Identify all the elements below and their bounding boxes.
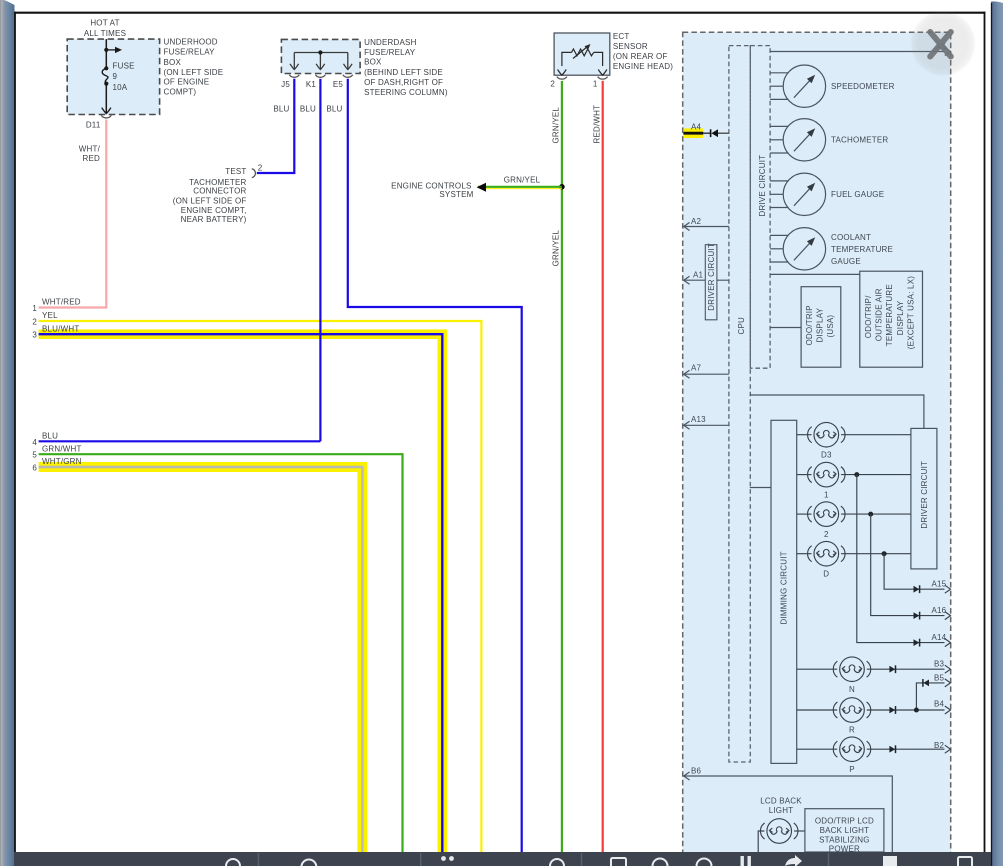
drive circuit dashed box <box>750 46 770 369</box>
svg-text:GRN/YEL: GRN/YEL <box>504 176 541 185</box>
svg-text:SYSTEM: SYSTEM <box>439 190 473 199</box>
wire bulb 2 to A16 <box>871 514 945 616</box>
connector B3 <box>945 665 951 673</box>
svg-text:(ON LEFT SIDE OF: (ON LEFT SIDE OF <box>173 196 247 205</box>
svg-text:GRN/YEL: GRN/YEL <box>552 107 561 144</box>
svg-text:A16: A16 <box>932 606 947 615</box>
svg-text:P: P <box>849 765 855 774</box>
wire bulb 1 to A14 <box>857 475 945 643</box>
node junction on GRN/YEL wire <box>559 184 565 190</box>
svg-text:(BEHIND LEFT SIDE: (BEHIND LEFT SIDE <box>364 68 443 77</box>
wire from drive circuit to odo/trip display (USA) <box>770 327 801 329</box>
wire CPU to dimming circuit <box>750 487 771 489</box>
svg-text:10A: 10A <box>113 83 128 92</box>
internal bus wire of underdash box <box>290 53 352 70</box>
svg-text:COOLANT: COOLANT <box>831 233 871 242</box>
svg-text:COMPT): COMPT) <box>164 87 197 96</box>
wire from drive circuit to odo/trip/outside air display <box>770 273 860 275</box>
connector A7 <box>684 370 729 378</box>
toolbar <box>14 852 991 866</box>
svg-text:ECT: ECT <box>613 32 630 41</box>
svg-text:STEERING COLUMN): STEERING COLUMN) <box>364 88 448 97</box>
svg-text:A15: A15 <box>932 580 947 589</box>
svg-text:UNDERHOOD: UNDERHOOD <box>164 38 218 47</box>
test tachometer connector pin 2 <box>252 169 256 178</box>
fuel gauge <box>770 173 826 215</box>
driver circuit box (left, on A1 line) <box>705 245 717 320</box>
connector J5 K1 E5 half circles <box>289 75 353 78</box>
left window strip <box>0 0 15 866</box>
label UNDERDASH FUSE/RELAY BOX <box>364 38 448 97</box>
svg-text:FUSE: FUSE <box>113 62 135 71</box>
svg-text:DRIVER CIRCUIT: DRIVER CIRCUIT <box>920 461 929 529</box>
connector D11 half circle <box>101 115 111 118</box>
svg-text:BOX: BOX <box>164 58 182 67</box>
svg-text:FUSE/RELAY: FUSE/RELAY <box>164 48 216 57</box>
svg-text:TACHOMETER: TACHOMETER <box>189 178 246 187</box>
connector A1 <box>684 276 729 284</box>
svg-text:NEAR BATTERY): NEAR BATTERY) <box>181 215 247 224</box>
svg-text:WHT/RED: WHT/RED <box>42 298 81 307</box>
svg-text:DISPLAY: DISPLAY <box>896 300 905 335</box>
label ECT SENSOR <box>613 32 673 71</box>
svg-text:WHT/: WHT/ <box>79 144 101 153</box>
node on B4 line <box>914 708 919 713</box>
svg-text:2: 2 <box>32 318 37 327</box>
svg-text:ODO/TRIP/: ODO/TRIP/ <box>864 295 873 338</box>
underhood fuse/relay box <box>67 39 159 114</box>
node/junction in fuse box with branch arrow <box>104 47 122 53</box>
svg-text:2: 2 <box>824 530 829 539</box>
LCD back light bulb <box>758 819 805 852</box>
dimming circuit box <box>771 420 797 763</box>
wire 1 WHT/RED from pin 1 up to connector D11 <box>39 120 107 308</box>
svg-text:2: 2 <box>550 79 555 88</box>
svg-text:(ON REAR OF: (ON REAR OF <box>613 52 668 61</box>
wire RED/WHT from ECT pin 1 down to page bottom <box>602 81 604 852</box>
svg-text:ALL TIMES: ALL TIMES <box>84 29 126 38</box>
svg-text:(USA): (USA) <box>826 315 835 338</box>
svg-text:DRIVE CIRCUIT: DRIVE CIRCUIT <box>758 155 767 217</box>
bulb 2 <box>797 502 911 527</box>
svg-text:A14: A14 <box>932 633 947 642</box>
svg-text:(ON LEFT SIDE: (ON LEFT SIDE <box>164 68 224 77</box>
svg-text:GAUGE: GAUGE <box>831 257 861 266</box>
svg-text:J5: J5 <box>281 80 290 89</box>
svg-text:3: 3 <box>32 331 37 340</box>
svg-text:B6: B6 <box>691 767 702 776</box>
wire BLU from E5 down, right, down to page bottom <box>348 79 522 852</box>
connector B6 <box>684 772 893 852</box>
svg-text:D3: D3 <box>821 450 832 459</box>
connector A13 <box>684 421 729 429</box>
svg-text:6: 6 <box>32 464 37 473</box>
svg-text:BLU: BLU <box>42 432 58 441</box>
svg-text:SPEEDOMETER: SPEEDOMETER <box>831 82 895 91</box>
node on bulb 2 wire <box>868 512 873 517</box>
wire fuse to D11 with arrow <box>102 84 111 114</box>
close button X <box>910 11 976 77</box>
toolbar separators <box>258 853 828 866</box>
bulb D <box>797 541 911 566</box>
ECT sensor box <box>554 33 610 75</box>
svg-text:OF DASH,RIGHT OF: OF DASH,RIGHT OF <box>364 78 443 87</box>
svg-text:LIGHT: LIGHT <box>769 806 794 815</box>
connector B2 <box>945 745 951 753</box>
highlight band on WHT/GRN circuit <box>39 467 363 852</box>
svg-text:1: 1 <box>593 79 598 88</box>
svg-text:DRIVER CIRCUIT: DRIVER CIRCUIT <box>707 243 716 311</box>
svg-text:SENSOR: SENSOR <box>613 42 648 51</box>
CPU dashed box <box>729 46 750 762</box>
diode on A15 line <box>914 586 920 593</box>
svg-text:D11: D11 <box>86 120 101 129</box>
fuse 9 10A symbol <box>102 66 108 85</box>
svg-text:1: 1 <box>32 304 37 313</box>
svg-text:9: 9 <box>113 72 118 81</box>
wire GRN/YEL branch to engine controls system <box>478 186 562 188</box>
svg-text:ODO/TRIP: ODO/TRIP <box>805 305 814 345</box>
svg-text:TACHOMETER: TACHOMETER <box>831 135 888 144</box>
svg-text:B3: B3 <box>934 660 945 669</box>
svg-text:CPU: CPU <box>737 317 746 335</box>
svg-text:BLU: BLU <box>300 105 316 114</box>
svg-text:E5: E5 <box>333 80 344 89</box>
svg-text:STABILIZING: STABILIZING <box>819 835 870 844</box>
svg-text:ENGINE HEAD): ENGINE HEAD) <box>613 62 673 71</box>
svg-text:A13: A13 <box>691 415 706 424</box>
svg-text:RED/WHT: RED/WHT <box>593 105 602 144</box>
svg-text:GRN/YEL: GRN/YEL <box>552 230 561 267</box>
diagram frame border <box>14 12 985 14</box>
speedometer gauge <box>770 65 826 107</box>
connector A15 <box>945 585 951 593</box>
bulb D3 <box>797 422 911 447</box>
wire 6 WHT/GRN from pin 6 right and down to page bottom <box>39 467 363 852</box>
highlight band on BLU/WHT circuit <box>39 334 443 852</box>
svg-text:LCD BACK: LCD BACK <box>760 796 802 805</box>
svg-text:D: D <box>823 569 829 578</box>
tachometer gauge <box>770 119 826 161</box>
underdash fuse/relay box <box>281 39 360 73</box>
svg-text:N: N <box>849 685 855 694</box>
wire BLU from K1 down to pin 4 row <box>319 79 321 442</box>
diode on B3 line <box>889 666 895 673</box>
diode D5 on A4 line <box>711 129 729 137</box>
svg-text:DISPLAY: DISPLAY <box>816 307 825 342</box>
wire GRN/YEL from ECT pin 2 down to page bottom <box>561 81 563 852</box>
wire 4 BLU horizontal pin 4 to K1 riser <box>39 440 321 442</box>
svg-text:B2: B2 <box>934 741 945 750</box>
diode on A14 line <box>914 639 920 646</box>
wire bulb D to A15 <box>884 554 944 590</box>
connector A14 <box>945 639 951 647</box>
connector A16 <box>945 612 951 620</box>
instrument cluster outer box <box>683 32 951 854</box>
node on bus <box>318 50 322 54</box>
toolbar icons (tops visible) <box>226 857 972 866</box>
connector B4 <box>945 706 951 714</box>
diode on B4 line <box>889 707 895 714</box>
driver circuit box (right) <box>911 428 937 569</box>
wire from hot feed into fuse <box>105 39 107 68</box>
wire BLU from J5 down to test tachometer connector <box>257 79 295 173</box>
svg-text:UNDERDASH: UNDERDASH <box>364 38 416 47</box>
diode on A16 line <box>914 612 920 619</box>
label UNDERHOOD FUSE/RELAY BOX <box>164 38 224 97</box>
svg-text:TEST: TEST <box>225 167 246 176</box>
odo/trip display (USA) box <box>801 287 841 368</box>
odo/trip outside air temperature display box <box>860 271 923 367</box>
node on bulb 1 wire <box>854 472 859 477</box>
svg-text:B5: B5 <box>934 673 945 682</box>
ECT pin half-circles and numbers <box>557 77 608 80</box>
svg-text:(EXCEPT USA: LX): (EXCEPT USA: LX) <box>907 276 916 349</box>
svg-text:GRN/WHT: GRN/WHT <box>42 444 82 453</box>
svg-text:TEMPERATURE: TEMPERATURE <box>885 284 894 346</box>
svg-text:A4: A4 <box>691 122 702 131</box>
svg-text:FUSE/RELAY: FUSE/RELAY <box>364 48 416 57</box>
odo/trip lcd back light stabilizing power box <box>805 809 884 852</box>
svg-text:YEL: YEL <box>42 311 58 320</box>
svg-text:R: R <box>849 726 855 735</box>
wire CPU to right driver circuit <box>750 395 924 428</box>
svg-text:BOX: BOX <box>364 58 382 67</box>
svg-text:RED: RED <box>83 154 101 163</box>
svg-text:5: 5 <box>32 451 37 460</box>
svg-text:2: 2 <box>258 163 263 172</box>
svg-text:CONNECTOR: CONNECTOR <box>193 187 246 196</box>
svg-text:4: 4 <box>32 438 37 447</box>
node on bulb D wire <box>882 551 887 556</box>
svg-text:BACK LIGHT: BACK LIGHT <box>820 826 870 835</box>
thermistor symbol inside ECT sensor <box>562 47 603 67</box>
svg-text:K1: K1 <box>306 80 317 89</box>
svg-text:TEMPERATURE: TEMPERATURE <box>831 245 893 254</box>
connector A2 <box>684 223 729 231</box>
svg-text:A1: A1 <box>693 271 704 280</box>
wire 3 BLU/WHT from pin 3 right and down to page bottom <box>39 334 443 852</box>
svg-text:BLU: BLU <box>273 105 289 114</box>
svg-text:1: 1 <box>824 490 829 499</box>
wire 2 YEL from pin 2 right and down to page bottom <box>39 321 482 852</box>
coolant temperature gauge <box>770 228 826 270</box>
svg-text:A7: A7 <box>691 364 702 373</box>
svg-text:BLU: BLU <box>326 105 342 114</box>
wire A5 from drive circuit to connector A5 <box>770 48 950 56</box>
svg-text:OUTSIDE AIR: OUTSIDE AIR <box>875 288 884 341</box>
bulb P <box>797 737 945 762</box>
svg-text:ODO/TRIP LCD: ODO/TRIP LCD <box>815 817 874 826</box>
wire and diode to connector B5 <box>916 683 944 710</box>
wire 5 GRN/WHT from pin 5 right and down to page bottom <box>39 454 403 852</box>
right window strip <box>991 0 1003 866</box>
bulb R <box>797 698 945 723</box>
svg-text:HOT AT: HOT AT <box>90 19 119 28</box>
svg-text:ENGINE COMPT,: ENGINE COMPT, <box>181 206 247 215</box>
svg-text:A2: A2 <box>691 217 702 226</box>
bulb N <box>797 657 945 682</box>
svg-text:DIMMING CIRCUIT: DIMMING CIRCUIT <box>780 551 789 624</box>
svg-text:BLU/WHT: BLU/WHT <box>42 324 79 333</box>
svg-text:OF ENGINE: OF ENGINE <box>164 77 210 86</box>
label TEST TACHOMETER CONNECTOR <box>173 167 247 224</box>
svg-text:WHT/GRN: WHT/GRN <box>42 457 82 466</box>
svg-text:B4: B4 <box>934 700 945 709</box>
bulb 1 <box>797 462 911 487</box>
connector A4 with highlight <box>683 128 703 138</box>
svg-text:FUEL GAUGE: FUEL GAUGE <box>831 190 884 199</box>
diode on B2 line <box>889 746 895 753</box>
